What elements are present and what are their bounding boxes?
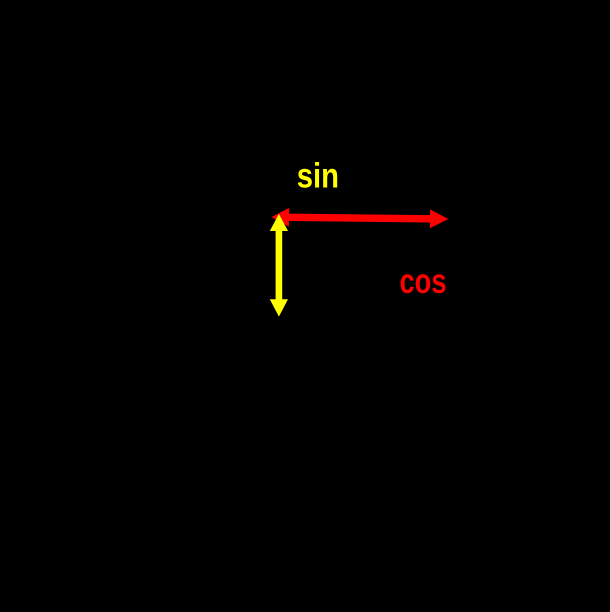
- cos arrow (red horizontal double-headed): [271, 208, 448, 229]
- svg-text:cos: cos: [400, 262, 447, 301]
- sin arrow (yellow vertical double-headed): [270, 214, 288, 317]
- svg-text:sin: sin: [297, 156, 339, 195]
